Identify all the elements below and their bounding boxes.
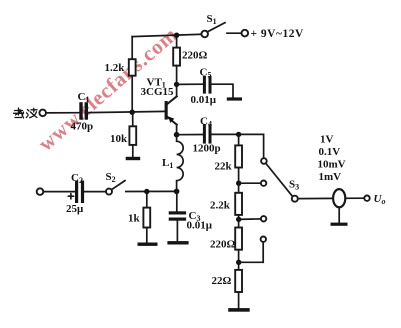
resistor 10k [129,126,136,145]
junction 0.1V node [236,181,241,186]
svg-text:1200p: 1200p [193,143,221,155]
svg-text:C4: C4 [200,116,212,129]
svg-text:S2: S2 [106,171,116,184]
wire L1 bottom to C3 [176,191,178,211]
svg-text:10k: 10k [110,133,128,145]
capacitor C5 [203,76,212,94]
wire C5 to ground [212,84,234,97]
ground (C3) [167,241,188,244]
svg-text:1V: 1V [320,134,334,146]
capacitor C2 electrolytic [68,181,84,204]
terminal carrier input [39,110,46,117]
ground (1k) [138,243,158,246]
output jack [333,189,345,207]
wire S2 to L1 bottom [126,190,177,192]
capacitor C1 [79,102,88,120]
svg-text:1.2k: 1.2k [105,62,126,74]
wire 1k upper [146,192,148,208]
svg-text:0.1V: 0.1V [319,146,341,158]
svg-text:L1: L1 [162,157,173,170]
ground (divider) [228,308,250,312]
wire 220 branch lower [176,66,178,97]
wire C2 to S2 [85,191,106,193]
resistor 22ohm [235,270,242,292]
svg-text:C5: C5 [200,67,212,80]
switch S1 [201,23,248,38]
junction L1 bottom node [174,189,180,195]
svg-text:25μ: 25μ [66,203,84,215]
resistor 220ohm divider [235,228,242,250]
resistor 220ohm collector [173,48,180,66]
inductor L1 [177,137,184,191]
label carrier 载波 [14,108,38,118]
wire C4 to divider top [212,134,264,158]
wire input2 to C2 [43,191,75,193]
switch S2 [106,181,125,195]
svg-text:2.2k: 2.2k [210,200,231,212]
wire 0.1V tap [239,182,261,184]
junction base node [130,110,135,115]
wire C3 to ground [176,221,178,242]
wire S3 to jack [298,197,334,199]
capacitor C3 [169,211,186,220]
wire 1mV tap [239,242,264,262]
terminal modulation input [37,188,44,195]
switch S3 wiper [266,163,298,201]
wire emitter to C4 [177,134,203,136]
wire 22 to ground [238,292,240,308]
wire collector to C5 [177,83,203,85]
svg-text:S3: S3 [289,179,299,192]
svg-text:Uo: Uo [374,193,386,206]
wire 220 branch upper [176,35,178,47]
wire jack to ground [338,207,340,223]
junction emitter node [174,132,180,138]
wire top supply rail [132,34,201,36]
svg-text:0.01μ: 0.01μ [187,220,213,232]
svg-text:3CG15: 3CG15 [141,86,175,98]
junction collector node [174,82,179,87]
ground (10k) [126,157,141,160]
wire jack to Uo [339,197,364,199]
svg-text:C2: C2 [71,172,83,185]
wire 1.2k branch upper [131,37,133,60]
ground (C5) [227,97,242,100]
wire 10k to ground [132,145,134,157]
wire 10mV tap [239,218,261,221]
svg-text:0.01μ: 0.01μ [191,94,217,106]
svg-text:470p: 470p [71,121,94,133]
wire 1.2k branch lower [131,76,133,113]
svg-text:S1: S1 [207,13,217,26]
resistor 22k [235,145,242,167]
ground (jack) [331,223,348,226]
terminal Uo [364,196,369,201]
resistor 1.2k [129,59,136,75]
svg-text:10mV: 10mV [318,159,346,171]
contact 10mV tap [261,216,266,221]
wire input to C1 [46,112,79,114]
svg-text:+ 9V~12V: + 9V~12V [251,28,304,40]
transistor VT1 [165,96,177,135]
wire 22k to 2.2k [238,168,240,193]
svg-text:1k: 1k [128,213,141,225]
contact 1mV tap [261,237,266,242]
svg-text:220Ω: 220Ω [182,50,208,62]
capacitor C4 [203,124,212,143]
contact 1V tap [261,158,267,164]
junction 10mV node [236,217,241,222]
svg-text:220Ω: 220Ω [210,239,236,251]
wire divider top segment [238,134,240,145]
svg-text:1mV: 1mV [319,171,342,183]
contact 0.1V tap [261,181,266,186]
wire base node to 10k [132,112,134,126]
junction rail/220 [174,33,179,38]
svg-text:22k: 22k [215,161,233,173]
junction divider top [236,132,241,137]
junction 1k node [144,189,149,194]
svg-text:22Ω: 22Ω [212,275,232,287]
resistor 1k [143,208,150,228]
wire C1 to base [88,111,165,112]
wire 1k to ground [146,228,148,243]
wire 2.2k to 220 [238,215,240,228]
watermark www.elecfans.com [34,22,183,156]
junction 1mV node [236,260,241,265]
wire 220 to 22 [238,250,240,270]
resistor 2.2k [235,193,242,215]
